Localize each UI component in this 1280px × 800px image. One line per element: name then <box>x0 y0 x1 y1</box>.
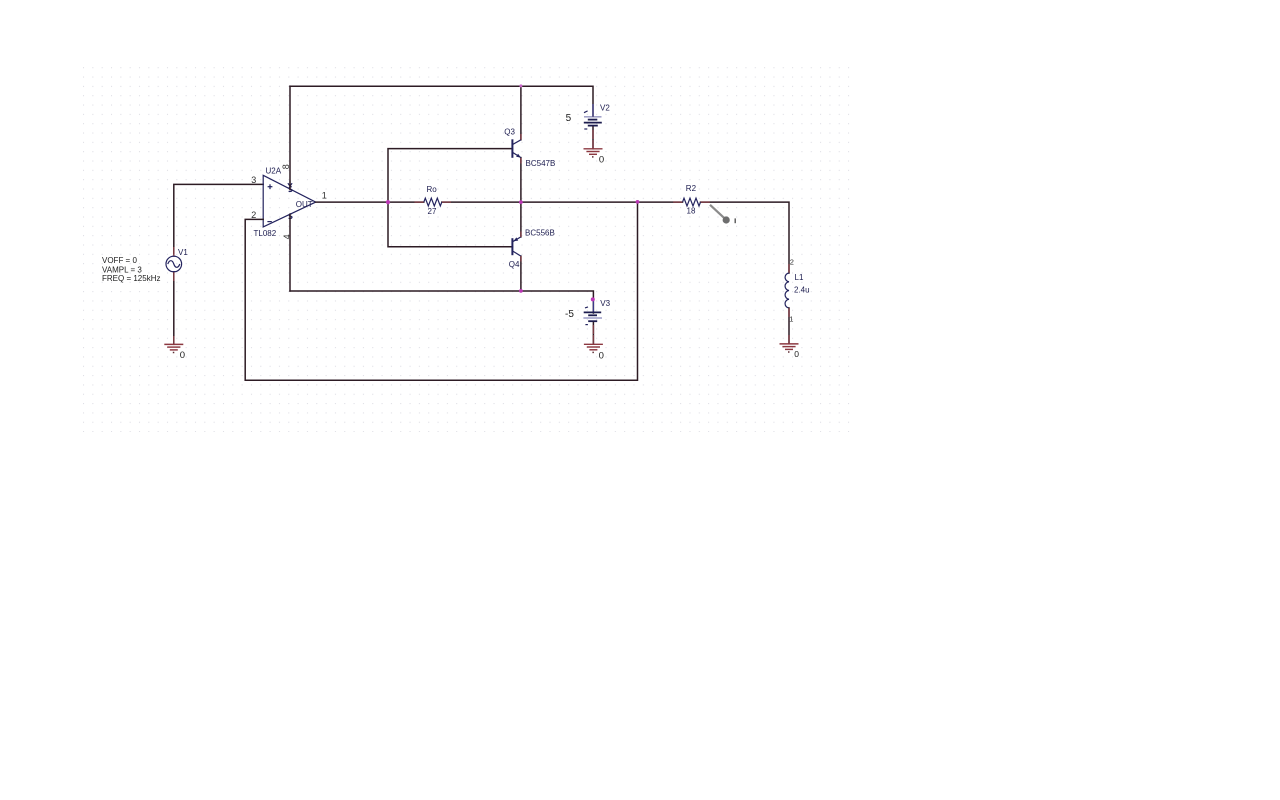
junction node at op-amp output <box>386 200 390 204</box>
current probe cursor <box>710 205 735 224</box>
sine source V1 <box>166 256 182 272</box>
junction node at Q4 collector <box>519 289 523 293</box>
svg-text:0: 0 <box>599 350 604 361</box>
svg-text:1: 1 <box>789 315 793 324</box>
svg-text:Ro: Ro <box>427 185 438 194</box>
wire feedback to Q3 base <box>388 149 512 203</box>
wire node to R2 <box>638 201 683 203</box>
svg-text:VOFF = 0: VOFF = 0 <box>102 256 137 265</box>
svg-text:Q3: Q3 <box>504 127 515 136</box>
svg-text:BC556B: BC556B <box>525 228 555 237</box>
svg-text:2.4u: 2.4u <box>794 285 810 294</box>
ground 0 below L1 <box>780 344 799 352</box>
svg-text:FREQ = 125kHz: FREQ = 125kHz <box>102 274 160 283</box>
wire V2 bottom to ground <box>592 127 594 149</box>
svg-text:V1: V1 <box>178 248 188 257</box>
op-amp plus input mark <box>268 184 273 189</box>
wire V1 bottom to ground <box>173 272 175 344</box>
ground 0 below V2 <box>584 149 603 157</box>
svg-text:5: 5 <box>566 113 572 124</box>
resistor Ro <box>424 198 442 206</box>
V1 property text VOFF/VAMPL/FREQ <box>102 256 160 283</box>
wire pin stubs <box>174 130 789 344</box>
op-amp minus input mark <box>267 221 271 223</box>
junction node at V3 top <box>591 297 595 301</box>
wire op-amp V- pin down <box>289 215 291 292</box>
svg-text:27: 27 <box>428 207 437 216</box>
svg-text:18: 18 <box>687 207 696 216</box>
svg-text:OUT: OUT <box>296 200 313 209</box>
svg-text:V2: V2 <box>600 103 610 112</box>
wire op-amp pin2 feedback loop <box>245 202 637 380</box>
transistor Q3 <box>512 139 521 158</box>
wire op-amp V+ pin to top rail <box>289 86 291 189</box>
junction node at Q3 collector top <box>519 84 522 87</box>
svg-text:R2: R2 <box>686 184 697 193</box>
svg-text:V3: V3 <box>600 299 610 308</box>
svg-text:1: 1 <box>322 191 327 201</box>
resistor R2 <box>683 198 701 206</box>
wire V1 top to op-amp pin3 <box>174 184 263 253</box>
svg-text:0: 0 <box>180 350 185 361</box>
battery V3 <box>583 301 602 325</box>
svg-text:2: 2 <box>790 258 794 267</box>
op-amp U2A triangle <box>263 175 316 227</box>
svg-text:Q4: Q4 <box>509 260 520 269</box>
wire op-amp output to Ro <box>316 201 424 203</box>
inductor L1 <box>785 273 789 308</box>
junction node at emitters <box>519 200 523 204</box>
transistor Q4 <box>512 237 521 256</box>
wire Ro to emitter node <box>442 201 638 203</box>
svg-text:TL082: TL082 <box>254 229 277 238</box>
svg-text:BC547B: BC547B <box>526 159 556 168</box>
wire Q3 emitter to output rail <box>520 158 522 203</box>
wire R2 to L1 <box>701 202 790 273</box>
svg-text:L1: L1 <box>795 273 804 282</box>
ground 0 below V3 <box>584 344 603 352</box>
wire bottom rail to V3 <box>290 291 593 313</box>
wire top rail to V2 <box>290 86 593 116</box>
op-amp V- power pin glyph <box>289 214 292 219</box>
wire L1 bottom to ground <box>788 308 790 344</box>
junction node at feedback tap <box>636 200 640 204</box>
wire feedback to Q4 base <box>388 202 512 247</box>
battery V2 <box>584 104 602 129</box>
ground 0 below V1 <box>164 344 183 352</box>
svg-text:3: 3 <box>251 175 256 185</box>
wire V3 bottom to ground <box>592 323 594 345</box>
svg-text:0: 0 <box>794 349 799 359</box>
svg-text:-5: -5 <box>565 309 574 320</box>
wire Q4 collector to bottom rail <box>520 256 522 291</box>
wire Q4 emitter to output rail <box>520 202 522 237</box>
svg-text:0: 0 <box>599 154 604 165</box>
op-amp V+ power pin glyph <box>288 181 292 192</box>
svg-text:U2A: U2A <box>266 167 282 176</box>
wire Q3 collector to top rail <box>520 86 522 140</box>
